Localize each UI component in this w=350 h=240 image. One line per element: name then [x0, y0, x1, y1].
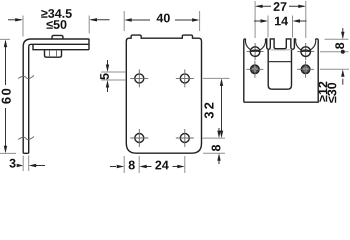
dim text 27: [274, 2, 287, 11]
L-bracket profile (side view): [23, 39, 89, 154]
mounting plate outline with top tabs: [126, 35, 201, 153]
hook tongue edge in slot: [269, 61, 291, 63]
dim 24 arrows: [139, 165, 185, 168]
dim 14 extension lines: [268, 16, 293, 38]
hook plate bottom hole right (filled): [297, 61, 314, 78]
dim 60 extension lines: [0, 39, 16, 153]
dim 8 top-right extension lines: [320, 39, 349, 52]
dim 8 bottom arrow: [110, 166, 116, 168]
central channel slot: [268, 50, 291, 89]
plate hole top-right: [176, 69, 194, 87]
mounting plate edge strip under arm: [33, 44, 89, 49]
dim 32 extension lines: [203, 78, 230, 138]
dim text 40: [157, 14, 170, 23]
dim text >=12 (rotated): [318, 82, 327, 102]
dim text 8 top-right (rotated): [335, 43, 344, 49]
dim 32 line and arrows: [220, 78, 223, 138]
dim text 60 (rotated): [2, 89, 11, 104]
dim 27 line and arrows: [255, 5, 306, 8]
plate hole bottom-left: [130, 129, 148, 147]
dim 14 arrows: [254, 19, 307, 22]
dim 8 top-right down arrow: [342, 28, 344, 38]
dim text >=34.5: [41, 9, 72, 18]
dim >=12/<=30 extension line: [320, 68, 349, 70]
dim text <=50: [47, 20, 67, 29]
dim text 24: [155, 161, 168, 170]
dim 34.5 right arrow: [91, 19, 110, 21]
dim 27 extension lines: [255, 1, 306, 38]
dim 8/24 bottom extension lines: [124, 156, 185, 173]
dim text <=30 (rotated): [327, 83, 336, 103]
hook plate bottom hole left (filled): [246, 61, 263, 78]
plate hole top-left: [130, 69, 148, 87]
dim 3 arrows: [17, 164, 45, 167]
hook plate top hole right with screw slot: [297, 43, 314, 60]
dim 8 top-right dot: [341, 50, 345, 54]
dim text 32 (rotated): [204, 103, 213, 119]
dim 40 line and arrows: [124, 18, 199, 21]
dim 60 line and arrows: [4, 39, 7, 153]
dim text 3: [9, 159, 15, 168]
dim text 8 bottom: [129, 161, 135, 170]
dim text 8 mid-right (rotated): [212, 145, 221, 151]
screw head on top of arm: [52, 35, 63, 38]
break mark upper: [18, 76, 34, 79]
dim 8 right arrows: [217, 128, 220, 164]
hook plate top hole left with screw slot: [247, 43, 264, 60]
dim 34.5 left arrow: [8, 19, 21, 21]
plate hole bottom-right: [176, 129, 194, 147]
dim 34.5 extension lines: [23, 16, 89, 37]
dim >=12 up arrow: [342, 79, 344, 85]
hook plate outline with keyhole slots: [244, 39, 318, 102]
dim 40 extension lines: [124, 11, 199, 31]
dim 5 arrows: [106, 60, 109, 92]
dim 5 extension lines: [101, 72, 126, 80]
dim 3 extension lines: [23, 156, 29, 172]
slot shoulder line: [271, 49, 291, 51]
nut under strip: [45, 50, 62, 57]
dim text 14: [275, 17, 288, 26]
break mark lower: [18, 137, 34, 140]
dim text 5 (rotated): [100, 73, 109, 79]
dim 8 right extension line: [203, 152, 225, 154]
